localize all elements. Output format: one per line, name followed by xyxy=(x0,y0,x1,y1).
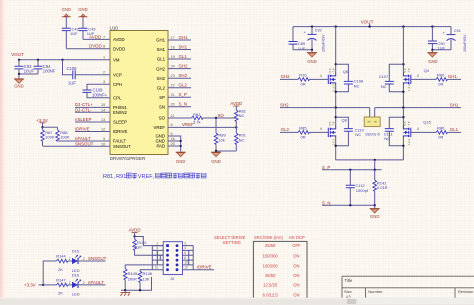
power +3.3V pullup rail xyxy=(36,118,48,127)
svg-text:1: 1 xyxy=(69,257,71,261)
wire Q4 source xyxy=(402,85,404,108)
svg-text:VM: VM xyxy=(113,58,120,63)
svg-text:Q8: Q8 xyxy=(342,118,348,123)
svg-text:ON: ON xyxy=(293,292,299,297)
svg-text:SH2: SH2 xyxy=(157,76,166,81)
resistor R144 2K xyxy=(56,254,72,272)
svg-text:Title: Title xyxy=(345,278,353,283)
svg-text:GL2: GL2 xyxy=(281,127,290,132)
svg-text:R92: R92 xyxy=(193,112,201,117)
junction Q6 drain / C108 xyxy=(335,63,337,65)
wire GND pins 5/16/25 xyxy=(168,136,181,152)
wire Q6 source xyxy=(335,85,337,108)
svg-text:VREF: VREF xyxy=(182,122,194,127)
junction C90 bottom xyxy=(431,49,433,51)
svg-text:2K: 2K xyxy=(58,291,63,296)
svg-text:C106: C106 xyxy=(67,66,78,71)
wire +3.3V up to R144 row xyxy=(43,261,56,285)
svg-text:+3.3V: +3.3V xyxy=(24,282,36,287)
svg-text:VCP: VCP xyxy=(113,73,122,78)
svg-text:14: 14 xyxy=(101,108,105,112)
svg-text:NC: NC xyxy=(381,84,387,89)
svg-text:100/200: 100/200 xyxy=(263,263,279,268)
resistor R146 13K xyxy=(138,270,153,291)
wire Q4 drain xyxy=(402,27,404,73)
svg-text:GH1: GH1 xyxy=(448,74,458,79)
capacitor C94 100NF xyxy=(34,60,56,74)
pin names right column xyxy=(154,38,166,149)
svg-text:Number: Number xyxy=(368,289,383,294)
svg-text:3.7k: 3.7k xyxy=(193,120,201,125)
svg-text:SH1: SH1 xyxy=(179,44,188,49)
svg-text:R144: R144 xyxy=(56,254,66,259)
svg-text:2: 2 xyxy=(83,257,85,261)
wire R89/R91 bottoms xyxy=(216,150,236,152)
resistor R86 0R xyxy=(411,126,461,140)
svg-text:3: 3 xyxy=(156,246,158,250)
connector J4 pins right column xyxy=(176,244,179,271)
junction Q8 source / C110 xyxy=(335,145,337,147)
svg-text:SH2: SH2 xyxy=(179,73,188,78)
table row 12.5/25 ON xyxy=(263,283,299,288)
power AVDD above R81 xyxy=(230,101,242,110)
transistor Q8 xyxy=(320,118,348,146)
svg-text:51K: 51K xyxy=(135,245,142,250)
junction rail C92 xyxy=(311,25,313,27)
wire Q15 drain xyxy=(402,108,404,126)
junction SO node xyxy=(215,117,217,119)
svg-text:100NF: 100NF xyxy=(92,93,105,98)
svg-text:0.01R: 0.01R xyxy=(377,185,388,190)
wire C91 bottom to C90 xyxy=(432,49,451,51)
svg-text:22: 22 xyxy=(171,84,175,88)
svg-text:C107: C107 xyxy=(379,74,389,79)
ground GND left bypass xyxy=(307,50,317,64)
capacitor C90 1UF xyxy=(428,27,446,51)
svg-text:HS OCP: HS OCP xyxy=(289,235,305,240)
wire C106 branch xyxy=(63,60,111,75)
svg-text:SO: SO xyxy=(159,116,166,121)
svg-text:SO: SO xyxy=(218,113,225,118)
op-amp U1 : IC U10 DRV8701PRGER body xyxy=(110,25,169,161)
svg-text:4: 4 xyxy=(105,94,107,98)
svg-text:+3.3V: +3.3V xyxy=(36,118,48,123)
capacitor C91 electrolytic xyxy=(443,27,468,52)
connector J4 pins left column xyxy=(166,244,169,271)
wire Q15 source xyxy=(402,138,404,160)
table IDRIVE settings box xyxy=(253,241,307,301)
ground GND below C93 xyxy=(14,74,24,89)
capacitor C112 1000pf xyxy=(346,170,369,206)
resistor R88 100K xyxy=(56,127,70,141)
wire C43 to AVDD net xyxy=(82,31,84,40)
svg-text:EN/IN2: EN/IN2 xyxy=(113,110,127,115)
svg-text:S_N: S_N xyxy=(322,200,331,205)
resistor R91 NC xyxy=(235,127,247,151)
svg-text:8: 8 xyxy=(184,256,186,260)
svg-text:10k: 10k xyxy=(218,137,224,142)
svg-text:7: 7 xyxy=(103,35,105,39)
wire IDRIVE to pin 12 xyxy=(75,131,110,133)
resistor R92 3.7k xyxy=(192,112,204,125)
svg-text:17: 17 xyxy=(171,36,175,40)
svg-text:6: 6 xyxy=(171,123,173,127)
svg-text:100K: 100K xyxy=(60,135,70,140)
svg-text:SETTING: SETTING xyxy=(223,240,241,245)
svg-text:IDRIVE: IDRIVE xyxy=(75,126,90,131)
svg-text:nSLEEP: nSLEEP xyxy=(75,117,92,122)
svg-text:100K: 100K xyxy=(45,135,55,140)
svg-text:Revision: Revision xyxy=(458,289,473,294)
transistor Q4 xyxy=(403,68,430,91)
resistor R87 100K xyxy=(41,127,55,146)
svg-text:100uF/63V: 100uF/63V xyxy=(322,34,326,52)
svg-text:GL1: GL1 xyxy=(157,57,166,62)
svg-text:SH2: SH2 xyxy=(280,102,289,107)
svg-text:7,8: 7,8 xyxy=(407,68,411,73)
junction Q15 source / C111 xyxy=(402,145,404,147)
svg-text:1: 1 xyxy=(156,241,158,245)
wire DJ-CTL+ to pin 15 xyxy=(75,106,110,108)
wire AVDD to J4 pin 1 xyxy=(135,237,164,246)
svg-text:NC: NC xyxy=(384,136,390,141)
resistor R145 200K xyxy=(123,265,152,290)
svg-text:SLEEP: SLEEP xyxy=(113,120,127,125)
junction S_N / C112 xyxy=(349,204,351,206)
svg-text:0R: 0R xyxy=(438,81,443,86)
wire pin24 GH2 stub xyxy=(168,68,191,70)
svg-text:U10: U10 xyxy=(110,25,119,30)
wire AVDD to pin 7 xyxy=(83,38,110,40)
svg-text:SNSOUT: SNSOUT xyxy=(113,144,131,149)
ground GND right bypass xyxy=(427,50,437,64)
ground GND below R89 xyxy=(211,152,221,164)
junction VOUT/C93 xyxy=(18,59,20,61)
junction AVDD header node xyxy=(133,235,135,237)
wire pin19 GL1 stub xyxy=(168,58,191,60)
svg-text:1,2,3: 1,2,3 xyxy=(407,139,411,146)
note text SELECT IDRIVE SETTING xyxy=(214,235,246,245)
capacitor C92 electrolytic xyxy=(304,27,326,52)
junction +3.3V node xyxy=(41,126,43,128)
svg-text:4: 4 xyxy=(184,246,186,250)
svg-text:13: 13 xyxy=(101,118,105,122)
svg-text:4: 4 xyxy=(320,127,322,131)
junction rail Q6 xyxy=(335,25,337,27)
svg-text:CPL: CPL xyxy=(113,95,122,100)
wire pin22 GL2 stub xyxy=(168,87,191,89)
wire Q8 drain xyxy=(335,108,337,126)
svg-text:OFF: OFF xyxy=(292,243,301,248)
svg-text:AVDD: AVDD xyxy=(230,101,242,106)
svg-text:DVDD: DVDD xyxy=(113,47,125,52)
svg-text:D16: D16 xyxy=(72,272,80,277)
svg-text:S_N: S_N xyxy=(179,102,188,107)
capacitor C110 NC xyxy=(336,117,365,146)
junction rail C90 xyxy=(431,25,433,27)
svg-text:R76: R76 xyxy=(299,73,307,78)
junction S_P / R141 xyxy=(374,169,376,171)
svg-text:R80: R80 xyxy=(437,73,445,78)
svg-text:8: 8 xyxy=(103,45,105,49)
resistor R140 51K xyxy=(133,237,163,256)
svg-text:18: 18 xyxy=(171,45,175,49)
diode D16 LED xyxy=(69,272,85,296)
svg-text:7,8: 7,8 xyxy=(407,121,411,126)
table row 150/300 ON xyxy=(263,254,300,259)
note text (blue, Chinese) xyxy=(103,174,155,180)
svg-text:R86: R86 xyxy=(437,126,445,131)
svg-text:1: 1 xyxy=(69,281,71,285)
junction S_N / R141 xyxy=(374,204,376,206)
svg-text:SH1: SH1 xyxy=(157,47,166,52)
svg-text:2K: 2K xyxy=(58,267,63,272)
wire J4 left bus C xyxy=(159,255,161,260)
svg-text:25/50: 25/50 xyxy=(265,243,276,248)
wire SO node down to R89 xyxy=(215,118,217,133)
svg-text:Q6: Q6 xyxy=(343,69,349,74)
wire pin18 SH1 stub xyxy=(168,49,191,51)
diode D15 LED xyxy=(69,248,85,272)
junction S_P / C112 xyxy=(349,169,351,171)
wire J4 left bus A xyxy=(151,246,153,270)
svg-text:1,2,3: 1,2,3 xyxy=(332,84,336,91)
wire J4 left stubs xyxy=(152,246,163,270)
wire Q8 source xyxy=(335,138,337,160)
svg-text:SP: SP xyxy=(159,95,165,100)
svg-text:ON: ON xyxy=(293,283,299,288)
junction GND pin16 xyxy=(180,140,182,142)
wire S_P rail xyxy=(322,169,382,171)
svg-text:D15: D15 xyxy=(72,248,80,253)
ground GND below IC xyxy=(176,152,186,164)
svg-text:R81: R81 xyxy=(103,174,113,180)
svg-text:21: 21 xyxy=(171,93,175,97)
junction source rail center xyxy=(374,159,376,161)
junction VREF node xyxy=(235,126,237,128)
svg-text:AVDD: AVDD xyxy=(129,228,141,233)
wire R92 to SO node xyxy=(203,117,236,119)
wire SO pin 11 xyxy=(168,117,192,119)
power AVDD header rail xyxy=(129,228,141,237)
svg-text:R147: R147 xyxy=(56,278,66,283)
svg-text:3: 3 xyxy=(103,80,105,84)
svg-text:0R: 0R xyxy=(438,134,443,139)
wire Q6 drain xyxy=(335,27,337,73)
svg-text:Q4: Q4 xyxy=(424,68,430,73)
svg-text:23: 23 xyxy=(171,74,175,78)
svg-text:10: 10 xyxy=(101,142,105,146)
svg-text:VOUT: VOUT xyxy=(11,52,24,57)
svg-text:S_P: S_P xyxy=(322,165,330,170)
svg-text:9: 9 xyxy=(156,261,158,265)
capacitor C93 10UF xyxy=(15,60,35,74)
wire +3.3V to R88 xyxy=(43,126,58,128)
svg-text:1UF: 1UF xyxy=(70,31,78,36)
junction Q15 drain / C111 xyxy=(402,116,404,118)
svg-text:11: 11 xyxy=(171,114,175,118)
junction rail Q4 xyxy=(402,25,404,27)
svg-text:7: 7 xyxy=(156,256,158,260)
wire IDRIVE out xyxy=(193,269,214,271)
svg-text:0R: 0R xyxy=(301,81,306,86)
wire GND to C42 xyxy=(65,17,67,28)
svg-text:nFAULT: nFAULT xyxy=(88,280,104,285)
svg-text:1000pf: 1000pf xyxy=(356,188,369,193)
capacitor C108 NC xyxy=(336,64,364,92)
svg-text:6: 6 xyxy=(184,251,186,255)
wire J4 left bus B xyxy=(156,250,158,265)
table row 25/50 OFF xyxy=(265,243,301,248)
svg-text:4: 4 xyxy=(417,127,419,131)
svg-text:GH2: GH2 xyxy=(179,63,189,68)
svg-text:25/50: 25/50 xyxy=(265,273,276,278)
svg-text:2: 2 xyxy=(184,241,186,245)
svg-text:4: 4 xyxy=(417,74,419,78)
svg-text:SH1: SH1 xyxy=(450,103,459,108)
junction GND pin25 xyxy=(180,145,182,147)
svg-text:100uF/63V: 100uF/63V xyxy=(463,34,467,52)
svg-text:C91: C91 xyxy=(454,29,461,33)
net label VOUT (bridge supply) xyxy=(361,19,374,26)
svg-text:2: 2 xyxy=(103,71,105,75)
svg-text:DRV8701PRGER: DRV8701PRGER xyxy=(110,156,146,161)
svg-text:ON: ON xyxy=(293,254,299,259)
capacitor C111 NC xyxy=(384,117,404,146)
junction R89 bottom xyxy=(215,150,217,152)
svg-text:Size: Size xyxy=(344,289,353,294)
ground GND sense xyxy=(370,205,380,219)
junction C93 / GND xyxy=(18,73,20,75)
wire pin17 GH1 stub xyxy=(168,39,191,41)
wire C93/C94 ground rail xyxy=(19,73,38,75)
wire VM rail xyxy=(19,59,110,61)
svg-text:GND: GND xyxy=(14,84,24,89)
wire D15 to SNSOUT xyxy=(78,260,105,262)
wire nSLEEP to pin 13 xyxy=(75,121,110,123)
svg-text:LED: LED xyxy=(72,292,80,297)
wire J4 right bus xyxy=(192,246,194,270)
svg-text:GL2: GL2 xyxy=(179,83,188,88)
svg-text:ON: ON xyxy=(293,263,299,268)
svg-text:11: 11 xyxy=(155,266,159,270)
svg-text:S_P: S_P xyxy=(179,92,187,97)
svg-text:GH1: GH1 xyxy=(179,35,189,40)
svg-text:VREF: VREF xyxy=(138,174,154,180)
transistor Q15 xyxy=(403,120,431,146)
svg-text:Q15: Q15 xyxy=(423,120,431,125)
junction C106 branch xyxy=(61,59,63,61)
svg-text:DVDD: DVDD xyxy=(89,44,103,49)
scrollbar strip xyxy=(0,298,474,305)
capacitor C106 1UF xyxy=(67,66,78,86)
capacitor C107 NC xyxy=(379,64,404,92)
capacitor C109 100NF xyxy=(83,88,106,98)
junction C92 bottom xyxy=(311,49,313,51)
svg-text:VREF: VREF xyxy=(154,125,166,130)
svg-text:1: 1 xyxy=(103,56,105,60)
svg-text:10UF: 10UF xyxy=(24,69,35,74)
title block frame xyxy=(342,276,474,298)
resistor R89 10k xyxy=(214,133,226,151)
svg-text:GND: GND xyxy=(176,159,186,164)
svg-text:NC: NC xyxy=(354,83,360,88)
junction Q4 drain / C107 xyxy=(402,63,404,65)
svg-text:100NF: 100NF xyxy=(43,69,56,74)
junction Q8 drain / C110 xyxy=(335,116,337,118)
svg-text:200K: 200K xyxy=(128,276,138,281)
svg-text:nFAULT: nFAULT xyxy=(75,136,91,141)
wire C42 to DVDD net xyxy=(65,31,67,49)
table row 100/200 ON xyxy=(263,263,300,268)
svg-text:GH1: GH1 xyxy=(156,38,165,43)
ground GND at C43 xyxy=(78,7,88,17)
svg-text:GL1: GL1 xyxy=(179,54,188,59)
svg-text:4: 4 xyxy=(320,74,322,78)
connector motor 2EDG-5 xyxy=(364,117,380,137)
wire nFAULT to pin 9 xyxy=(58,140,111,142)
svg-text:12: 12 xyxy=(101,127,105,131)
svg-text:DJ-CTL-: DJ-CTL- xyxy=(75,107,92,112)
svg-text:150/300: 150/300 xyxy=(263,254,279,259)
table row 25/50 ON xyxy=(265,273,300,278)
svg-text:9: 9 xyxy=(103,137,105,141)
svg-text:15: 15 xyxy=(101,103,105,107)
resistor R85 0R xyxy=(280,126,328,140)
svg-text:24: 24 xyxy=(171,64,175,68)
wire DVDD to pin 8 xyxy=(66,48,110,50)
wire S_N rail xyxy=(322,204,375,206)
svg-text:20: 20 xyxy=(171,103,175,107)
pin names left column xyxy=(113,37,131,149)
resistor R80 0R xyxy=(411,73,461,87)
svg-text:SNSOUT: SNSOUT xyxy=(88,256,107,261)
wire VOUT top rail xyxy=(293,26,451,28)
power +3.3V LED rail xyxy=(24,282,43,287)
wire VREF pin 6 xyxy=(168,126,236,128)
svg-text:0R: 0R xyxy=(301,134,306,139)
ground earth (header) xyxy=(121,290,131,296)
junction rail VOUT xyxy=(368,25,370,27)
svg-text:CPH: CPH xyxy=(113,82,122,87)
resistor R81 NC xyxy=(235,108,247,127)
svg-text:AVDD: AVDD xyxy=(113,37,125,42)
svg-text:2: 2 xyxy=(83,281,85,285)
svg-text:GL2: GL2 xyxy=(157,85,166,90)
wire D16 to nFAULT xyxy=(78,284,105,286)
svg-text:NC: NC xyxy=(355,132,361,137)
table IDRIVE settings header xyxy=(254,235,305,240)
wire C89 to C92 bottom xyxy=(293,49,312,51)
svg-text:19: 19 xyxy=(171,55,175,59)
wire pin23 SH2 stub xyxy=(168,77,191,79)
junction R145 bottom xyxy=(124,289,126,291)
svg-text:GND: GND xyxy=(62,7,72,12)
svg-text:25: 25 xyxy=(171,142,175,146)
junction Q4 source / C107 xyxy=(402,91,404,93)
wire J4 right bus B xyxy=(188,250,190,265)
svg-text:J4: J4 xyxy=(170,277,174,281)
resistor R76 0R xyxy=(280,73,328,87)
connector J4 header body xyxy=(163,242,182,281)
capacitor C42 1UF xyxy=(62,26,80,35)
svg-text:IDRIVE: IDRIVE xyxy=(197,265,212,270)
wire +3.3V to R147 row xyxy=(43,284,56,286)
transistor Q6 xyxy=(320,68,349,91)
resistor R141 0.01R xyxy=(373,170,388,206)
svg-text:10: 10 xyxy=(184,261,188,265)
junction +3.3V LED node xyxy=(42,284,44,286)
